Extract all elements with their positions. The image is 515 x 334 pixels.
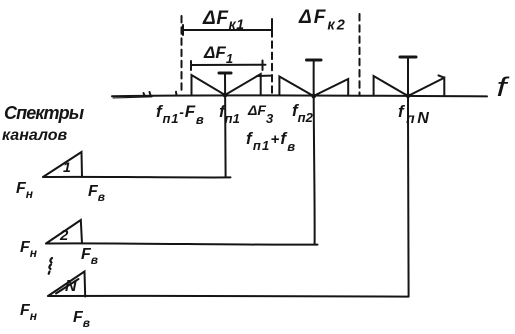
svg-text:каналов: каналов: [2, 127, 67, 144]
svg-text:fпN: fпN: [398, 102, 431, 127]
carrier f_PN: [400, 56, 416, 59]
svg-text:ΔFк2: ΔFк2: [298, 7, 347, 34]
dashed line between channel 1 and 2: [271, 19, 273, 93]
svg-text:fп1+fв: fп1+fв: [246, 129, 296, 154]
channel 1 lowpass triangle: [43, 152, 82, 177]
channel 1 spectrum bowtie: [192, 74, 271, 95]
channel N spectrum bowtie: [374, 75, 445, 96]
vertical ellipsis: [49, 258, 52, 274]
wire channel 2: [46, 243, 318, 244]
svg-text:Fв: Fв: [73, 309, 90, 330]
svg-text:f: f: [497, 71, 511, 102]
carrier f_P2: [307, 59, 322, 62]
wire channel N: [48, 295, 409, 298]
axis tick marks: [144, 92, 177, 96]
wire channel 1: [43, 176, 231, 179]
dashed line right of channel 2 group: [359, 14, 361, 95]
svg-text:ΔF3: ΔF3: [247, 102, 274, 126]
frequency axis: [112, 95, 487, 96]
svg-text:fп2: fп2: [292, 101, 314, 125]
svg-text:Fн: Fн: [20, 302, 38, 323]
junction dot f_PN: [406, 93, 411, 98]
svg-text:1: 1: [63, 159, 71, 175]
dashed line left of channel 1: [181, 16, 183, 93]
svg-text:fп1-Fв: fп1-Fв: [156, 102, 205, 127]
svg-text:Fн: Fн: [20, 239, 38, 260]
channel N lowpass triangle: [48, 272, 85, 297]
channel 2 lowpass triangle: [46, 220, 82, 244]
svg-text:Спектры: Спектры: [4, 103, 85, 123]
junction dot f_P2: [311, 94, 316, 99]
carrier f_P1: [219, 72, 231, 75]
svg-text:ΔFк1: ΔFк1: [202, 8, 245, 32]
dimension line dF1: [191, 61, 266, 71]
svg-text:Fн: Fн: [16, 180, 34, 201]
dimension line dFK1: [183, 25, 272, 35]
svg-text:ΔF1: ΔF1: [203, 43, 233, 66]
junction dot f_P1: [223, 93, 228, 98]
svg-text:Fв: Fв: [88, 183, 105, 204]
svg-text:Fв: Fв: [81, 246, 98, 267]
svg-text:N: N: [65, 278, 77, 295]
channel 2 spectrum bowtie: [279, 77, 348, 97]
axis sketch doubling: [113, 97, 152, 98]
svg-text:2: 2: [59, 227, 69, 244]
svg-text:fп1: fп1: [219, 102, 240, 126]
